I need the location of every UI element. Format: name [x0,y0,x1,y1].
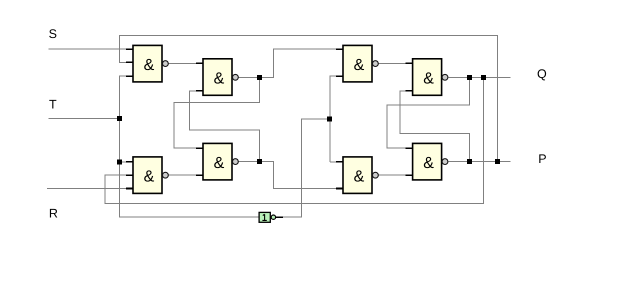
nand gate U1 [133,45,168,82]
wire: U4 output to U7 and U2 [190,91,344,189]
svg-text:&: & [144,57,155,74]
svg-text:Q: Q [537,67,547,81]
wire: U1 output to U2 [169,63,204,65]
nand gate U5 [343,45,378,82]
nand gate U8 [413,143,448,180]
wire: U5 output to U6 [379,63,413,65]
node Q junction 1 [467,75,472,80]
svg-text:&: & [214,155,225,172]
wire: U8 output P line with feedback to U6 [400,91,510,162]
wire: R input to U3 [47,188,133,190]
wire: U3 output to U4 [169,174,204,176]
node Q junction 2 [481,75,486,80]
svg-text:P: P [538,152,546,166]
node inverted clock junction [327,117,332,122]
svg-text:&: & [354,57,365,74]
svg-text:&: & [423,70,434,87]
nand gate U4 [203,143,238,180]
svg-text:&: & [214,70,225,87]
node T clock junction [117,116,122,121]
wire: U2 output to U5 and U4 [174,49,343,148]
nand gate U3 [133,157,168,194]
node P junction 2 [495,159,500,164]
nand gate U7 [343,157,378,194]
nand gate U6 [413,59,448,96]
svg-text:R: R [49,206,58,220]
svg-text:T: T [49,97,57,111]
wire: S input to U1 [49,48,133,50]
node U2 output junction [257,75,262,80]
nand gate U2 [203,59,238,96]
node P junction 1 [467,159,472,164]
wire: T input to node [49,117,120,119]
wire: U7 output to U8 [379,174,413,176]
node clock to U3 junction [117,159,122,164]
svg-text:&: & [144,168,155,185]
wire: T clock vertical to U1, U3 and inverter [120,76,260,217]
node U4 output junction [257,159,262,164]
svg-text:&: & [423,155,434,172]
wire: inverter output to U5 and U7 [283,76,343,217]
svg-text:S: S [49,27,57,41]
inverter U9 (clock) [259,212,275,222]
wire: top feedback P to U1 input (net P) [120,36,498,162]
svg-text:&: & [354,168,365,185]
pins: black input pin stubs of all gates and inverter output pin [126,49,413,217]
wire: U6 output Q line with feedbacks [105,77,510,203]
